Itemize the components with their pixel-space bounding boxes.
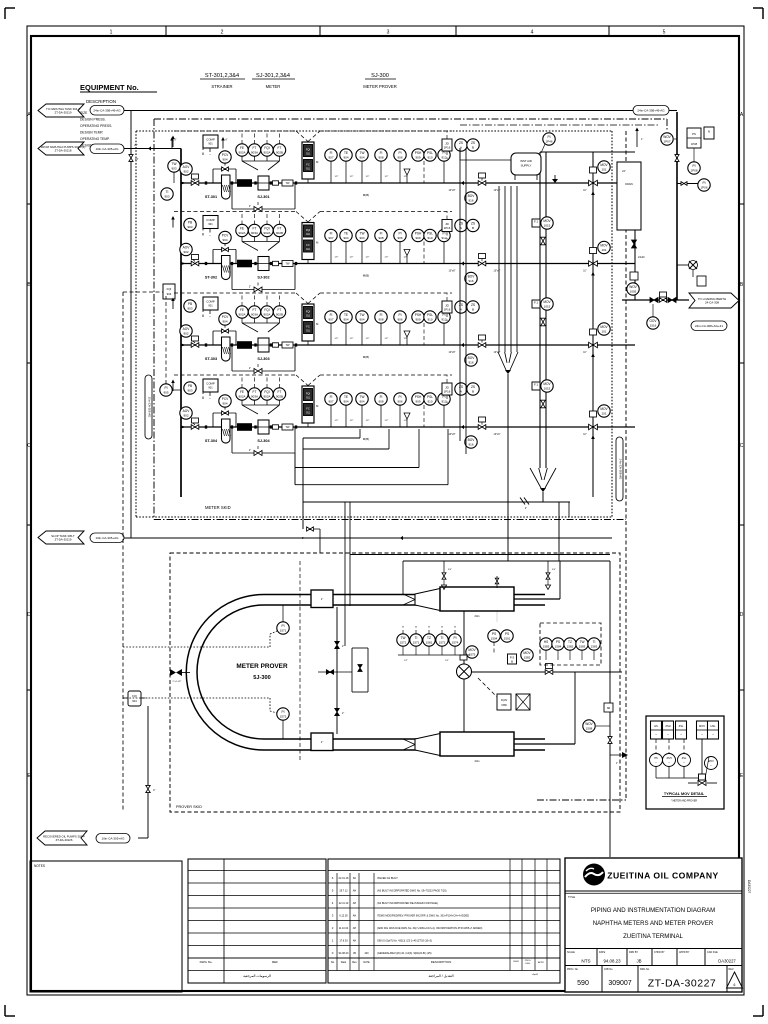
svg-text:(ADD DIG WAS DUE DWG No. 34(7+: (ADD DIG WAS DUE DWG No. 34(7+3030+CA7+4… bbox=[377, 927, 482, 930]
svg-text:AH: AH bbox=[353, 915, 357, 918]
svg-text:904: 904 bbox=[222, 238, 227, 242]
svg-text:909: 909 bbox=[415, 318, 420, 322]
svg-text:SR: SR bbox=[607, 706, 611, 710]
svg-text:904: 904 bbox=[343, 156, 348, 160]
svg-text:HS: HS bbox=[654, 757, 658, 760]
svg-text:ZUEITINA OIL COMPANY: ZUEITINA OIL COMPANY bbox=[607, 871, 719, 881]
svg-text:1572: 1572 bbox=[439, 641, 446, 645]
svg-text:FI: FI bbox=[380, 395, 383, 399]
svg-text:PI: PI bbox=[281, 710, 284, 714]
svg-text:DATE: DATE bbox=[363, 961, 370, 964]
svg-text:NOTES: NOTES bbox=[34, 864, 45, 868]
svg-text:PROJ./: PROJ./ bbox=[525, 960, 532, 962]
svg-text:F.1: F.1 bbox=[534, 383, 538, 387]
svg-text:MOV: MOV bbox=[600, 407, 608, 411]
svg-text:911: 911 bbox=[306, 397, 310, 400]
svg-text:904: 904 bbox=[343, 400, 348, 404]
svg-text:FT: FT bbox=[278, 146, 282, 150]
svg-text:ZSH: ZSH bbox=[667, 757, 672, 760]
svg-text:FT: FT bbox=[278, 308, 282, 312]
svg-text:PSH: PSH bbox=[415, 395, 422, 399]
svg-text:PCV: PCV bbox=[222, 234, 229, 238]
svg-text:PCV: PCV bbox=[222, 153, 229, 157]
svg-text:906: 906 bbox=[397, 156, 402, 160]
svg-text:902A: 902A bbox=[263, 395, 270, 399]
svg-text:907: 907 bbox=[328, 400, 333, 404]
svg-text:10''x8'': 10''x8'' bbox=[448, 270, 456, 273]
svg-text:APPD: APPD bbox=[538, 961, 544, 964]
svg-text:ZS: ZS bbox=[459, 141, 463, 145]
svg-text:B: B bbox=[472, 146, 474, 150]
svg-text:TYPICAL MOV DETAIL: TYPICAL MOV DETAIL bbox=[664, 792, 705, 796]
svg-text:10''x8'': 10''x8'' bbox=[448, 351, 456, 354]
svg-text:10''x8'': 10''x8'' bbox=[448, 189, 456, 192]
svg-text:FI: FI bbox=[380, 232, 383, 236]
svg-text:ENG.: ENG. bbox=[526, 963, 531, 965]
svg-text:AOV: AOV bbox=[183, 165, 191, 169]
svg-text:الرسومات المرجعية: الرسومات المرجعية bbox=[243, 974, 271, 978]
svg-text:902B: 902B bbox=[276, 313, 283, 317]
svg-text:906: 906 bbox=[397, 236, 402, 240]
svg-text:911: 911 bbox=[306, 233, 310, 236]
svg-text:FQI: FQI bbox=[306, 148, 311, 152]
svg-text:TE: TE bbox=[344, 395, 348, 399]
svg-text:1/2'': 1/2'' bbox=[385, 257, 389, 259]
svg-text:1/2'': 1/2'' bbox=[385, 176, 389, 178]
svg-text:WOV: WOV bbox=[663, 135, 671, 139]
svg-text:909: 909 bbox=[415, 156, 420, 160]
svg-text:DA30227: DA30227 bbox=[747, 880, 751, 894]
svg-text:PSH: PSH bbox=[415, 232, 422, 236]
svg-text:902B: 902B bbox=[276, 231, 283, 235]
svg-text:PB: PB bbox=[188, 302, 192, 306]
svg-text:PI: PI bbox=[398, 395, 401, 399]
svg-text:903: 903 bbox=[171, 167, 176, 171]
svg-text:DRG No.: DRG No. bbox=[640, 968, 650, 971]
svg-text:PIPING AND INSTRUMENTATION DIA: PIPING AND INSTRUMENTATION DIAGRAM bbox=[591, 907, 715, 914]
svg-text:10''x6'': 10''x6'' bbox=[493, 270, 501, 273]
svg-text:903A: 903A bbox=[251, 231, 258, 235]
svg-text:1/2'': 1/2'' bbox=[350, 257, 354, 259]
svg-text:24in: 24in bbox=[475, 614, 480, 618]
svg-text:1/2'': 1/2'' bbox=[335, 420, 339, 422]
svg-text:903: 903 bbox=[187, 307, 192, 311]
svg-text:D: D bbox=[27, 612, 31, 618]
svg-text:ZS: ZS bbox=[471, 141, 475, 145]
svg-text:DESIGN PRESS.: DESIGN PRESS. bbox=[80, 118, 106, 122]
svg-text:907: 907 bbox=[328, 236, 333, 240]
svg-text:309007: 309007 bbox=[608, 980, 631, 987]
svg-text:1/2'': 1/2'' bbox=[366, 257, 370, 259]
svg-text:TE: TE bbox=[344, 232, 348, 236]
svg-text:904: 904 bbox=[359, 400, 364, 404]
svg-text:904: 904 bbox=[132, 699, 137, 703]
svg-text:SJ-304: SJ-304 bbox=[257, 439, 270, 443]
svg-text:PI: PI bbox=[442, 232, 445, 236]
svg-text:ISSUED AS BUILT: ISSUED AS BUILT bbox=[377, 877, 398, 880]
svg-text:ST-303: ST-303 bbox=[205, 357, 217, 361]
svg-text:COMP: COMP bbox=[206, 218, 215, 222]
svg-text:MOV: MOV bbox=[600, 163, 608, 167]
svg-text:1P16: 1P16 bbox=[444, 307, 451, 311]
svg-text:FT: FT bbox=[253, 390, 257, 394]
svg-text:908: 908 bbox=[378, 236, 383, 240]
svg-text:JB: JB bbox=[353, 952, 356, 955]
svg-text:SC: SC bbox=[353, 877, 357, 880]
svg-text:FI: FI bbox=[330, 232, 333, 236]
svg-text:Date: Date bbox=[341, 960, 347, 964]
svg-text:904: 904 bbox=[343, 236, 348, 240]
svg-text:901: 901 bbox=[208, 304, 213, 308]
svg-text:904: 904 bbox=[359, 318, 364, 322]
svg-text:901: 901 bbox=[208, 386, 213, 390]
svg-text:1P08: 1P08 bbox=[690, 169, 697, 173]
svg-text:1P16: 1P16 bbox=[444, 389, 451, 393]
svg-text:902: 902 bbox=[183, 414, 188, 418]
svg-text:3: 3 bbox=[387, 30, 390, 36]
svg-text:DESIGN TEMP.: DESIGN TEMP. bbox=[80, 131, 103, 135]
svg-text:PSL: PSL bbox=[427, 151, 433, 155]
svg-text:904: 904 bbox=[343, 318, 348, 322]
svg-text:FE: FE bbox=[240, 146, 244, 150]
svg-text:METER: METER bbox=[266, 84, 281, 89]
svg-text:902: 902 bbox=[183, 332, 188, 336]
svg-text:B: B bbox=[511, 659, 513, 663]
svg-text:1005: 1005 bbox=[630, 290, 637, 294]
svg-text:910: 910 bbox=[427, 400, 432, 404]
svg-text:TW: TW bbox=[360, 395, 365, 399]
svg-text:ST-304: ST-304 bbox=[205, 439, 218, 443]
svg-text:1/2'': 1/2'' bbox=[350, 176, 354, 178]
svg-text:PCV: PCV bbox=[222, 397, 229, 401]
svg-text:(AS BUILT INCORPORATED DWG No.: (AS BUILT INCORPORATED DWG No. 05+70223 … bbox=[377, 890, 447, 893]
svg-text:1574: 1574 bbox=[452, 641, 459, 645]
svg-text:24in: 24in bbox=[475, 759, 480, 763]
svg-text:PSL: PSL bbox=[427, 313, 433, 317]
svg-text:1572: 1572 bbox=[280, 715, 287, 719]
svg-text:10''x6'': 10''x6'' bbox=[493, 351, 501, 354]
svg-text:906: 906 bbox=[397, 318, 402, 322]
svg-text:ZSL: ZSL bbox=[682, 757, 687, 760]
svg-text:AH: AH bbox=[353, 890, 357, 893]
svg-text:ZS: ZS bbox=[459, 385, 463, 389]
svg-text:FE: FE bbox=[240, 227, 244, 231]
svg-text:N: N bbox=[708, 130, 710, 134]
svg-text:902A: 902A bbox=[238, 151, 245, 155]
svg-text:HS: HS bbox=[544, 640, 548, 644]
svg-text:SCALE: SCALE bbox=[567, 951, 575, 954]
svg-text:TITLE: TITLE bbox=[568, 895, 575, 899]
svg-text:10''x8'': 10''x8'' bbox=[448, 433, 456, 436]
svg-text:10'': 10'' bbox=[583, 271, 587, 273]
svg-text:B: B bbox=[472, 308, 474, 312]
svg-text:902B: 902B bbox=[276, 395, 283, 399]
svg-text:B: B bbox=[472, 226, 474, 230]
svg-text:PI: PI bbox=[398, 313, 401, 317]
svg-text:911: 911 bbox=[306, 315, 310, 318]
svg-text:F.1: F.1 bbox=[534, 220, 538, 224]
svg-text:* METER AND PROVER: * METER AND PROVER bbox=[671, 800, 698, 803]
svg-text:FQI: FQI bbox=[264, 146, 269, 150]
svg-text:908: 908 bbox=[378, 156, 383, 160]
svg-text:FQI: FQI bbox=[306, 228, 311, 232]
svg-text:FQI: FQI bbox=[132, 694, 137, 698]
svg-text:912: 912 bbox=[441, 400, 446, 404]
svg-text:1580: 1580 bbox=[501, 704, 507, 707]
svg-text:BOV: BOV bbox=[468, 194, 476, 198]
svg-text:TW: TW bbox=[285, 425, 290, 429]
svg-text:FE: FE bbox=[240, 390, 244, 394]
svg-text:SJ-301,2,3&4: SJ-301,2,3&4 bbox=[256, 73, 290, 79]
svg-text:FI: FI bbox=[330, 313, 333, 317]
svg-text:10'': 10'' bbox=[583, 434, 587, 436]
svg-text:TW: TW bbox=[285, 181, 290, 185]
svg-text:PI: PI bbox=[398, 232, 401, 236]
svg-text:4: 4 bbox=[531, 30, 534, 36]
svg-text:FI: FI bbox=[330, 395, 333, 399]
svg-text:904: 904 bbox=[222, 158, 227, 162]
svg-text:APPD BY: APPD BY bbox=[679, 951, 690, 954]
svg-text:JOB No.: JOB No. bbox=[604, 968, 613, 971]
svg-text:INST AIR: INST AIR bbox=[520, 159, 532, 163]
svg-text:WOV: WOV bbox=[708, 760, 714, 763]
svg-text:PI: PI bbox=[692, 164, 695, 168]
svg-text:24-CA-308: 24-CA-308 bbox=[705, 301, 719, 305]
svg-text:TW: TW bbox=[360, 313, 365, 317]
svg-text:GOV: GOV bbox=[649, 319, 657, 323]
svg-text:1504: 1504 bbox=[491, 637, 498, 641]
svg-text:BOV: BOV bbox=[468, 275, 476, 279]
svg-text:1/2'': 1/2'' bbox=[385, 338, 389, 340]
svg-text:916: 916 bbox=[468, 443, 473, 447]
svg-text:903: 903 bbox=[187, 225, 192, 229]
svg-text:FQI: FQI bbox=[264, 227, 269, 231]
svg-text:911: 911 bbox=[306, 248, 310, 251]
svg-text:904: 904 bbox=[222, 320, 227, 324]
svg-text:CAD FILE: CAD FILE bbox=[707, 951, 718, 954]
svg-text:DA30227: DA30227 bbox=[718, 959, 736, 964]
svg-text:ZT-DA-30218: ZT-DA-30218 bbox=[55, 148, 72, 152]
svg-text:ST-302: ST-302 bbox=[205, 276, 217, 280]
svg-text:1/2'': 1/2'' bbox=[445, 660, 449, 662]
svg-text:FI: FI bbox=[380, 313, 383, 317]
svg-text:AH: AH bbox=[353, 940, 357, 943]
svg-text:DATE: DATE bbox=[599, 951, 606, 954]
svg-text:M(B): M(B) bbox=[363, 355, 370, 359]
svg-text:SJ-302: SJ-302 bbox=[257, 276, 269, 280]
svg-text:907: 907 bbox=[328, 318, 333, 322]
svg-text:1P06: 1P06 bbox=[700, 186, 707, 190]
svg-text:912: 912 bbox=[441, 156, 446, 160]
svg-text:1/2'': 1/2'' bbox=[366, 420, 370, 422]
svg-text:901: 901 bbox=[208, 142, 213, 146]
svg-text:*: * bbox=[711, 765, 712, 768]
svg-text:1/2'': 1/2'' bbox=[335, 257, 339, 259]
svg-text:*: * bbox=[656, 762, 657, 765]
svg-text:TI: TI bbox=[415, 636, 418, 640]
svg-text:1508: 1508 bbox=[586, 727, 593, 731]
svg-text:REF: REF bbox=[272, 960, 278, 964]
svg-text:906: 906 bbox=[397, 400, 402, 404]
svg-text:2: 2 bbox=[221, 30, 224, 36]
svg-text:FQI: FQI bbox=[264, 308, 269, 312]
svg-text:ZS: ZS bbox=[471, 303, 475, 307]
svg-text:PS: PS bbox=[505, 632, 509, 636]
svg-text:FT: FT bbox=[253, 308, 257, 312]
svg-text:PI: PI bbox=[164, 386, 167, 390]
svg-text:TZ: TZ bbox=[568, 640, 572, 644]
svg-text:904: 904 bbox=[167, 292, 172, 296]
svg-text:TW: TW bbox=[401, 636, 406, 640]
svg-text:(GENERAL/REV.(p5) 42. (14(3).: (GENERAL/REV.(p5) 42. (14(3). 9(04(22.81… bbox=[377, 952, 432, 955]
svg-text:TW: TW bbox=[580, 640, 585, 644]
svg-text:904: 904 bbox=[222, 402, 227, 406]
svg-text:1583: 1583 bbox=[543, 645, 550, 649]
svg-text:MOV: MOV bbox=[543, 300, 551, 304]
svg-text:FI: FI bbox=[380, 151, 383, 155]
svg-text:BOV: BOV bbox=[468, 438, 476, 442]
svg-text:ZT-DA-30219: ZT-DA-30219 bbox=[55, 537, 72, 541]
svg-text:COMP: COMP bbox=[206, 382, 215, 386]
svg-text:PI: PI bbox=[281, 624, 284, 628]
svg-text:ZT-DA-30227: ZT-DA-30227 bbox=[648, 978, 717, 990]
svg-text:OPERATING TEMP.: OPERATING TEMP. bbox=[80, 137, 110, 141]
svg-text:1571: 1571 bbox=[413, 641, 420, 645]
svg-text:10'': 10'' bbox=[583, 352, 587, 354]
svg-text:REV.: REV. bbox=[729, 968, 735, 971]
svg-text:1/2'': 1/2'' bbox=[385, 420, 389, 422]
svg-text:ZS: ZS bbox=[459, 222, 463, 226]
svg-text:FC: FC bbox=[306, 163, 310, 167]
svg-text:TW: TW bbox=[285, 262, 290, 266]
svg-text:PROVER SKID: PROVER SKID bbox=[176, 805, 202, 809]
svg-text:1P07: 1P07 bbox=[663, 140, 670, 144]
svg-text:C: C bbox=[27, 443, 31, 449]
svg-text:HSL: HSL bbox=[710, 724, 716, 728]
svg-text:590: 590 bbox=[577, 980, 589, 987]
svg-text:909: 909 bbox=[415, 236, 420, 240]
svg-text:PB: PB bbox=[188, 221, 192, 225]
svg-text:WOV: WOV bbox=[629, 285, 637, 289]
svg-text:FC: FC bbox=[306, 243, 310, 247]
svg-text:MOV: MOV bbox=[600, 325, 608, 329]
svg-text:901: 901 bbox=[208, 222, 213, 226]
svg-text:ST-301: ST-301 bbox=[205, 195, 217, 199]
svg-text:1/2'': 1/2'' bbox=[335, 176, 339, 178]
svg-text:MOV: MOV bbox=[543, 219, 551, 223]
svg-text:FT: FT bbox=[278, 227, 282, 231]
svg-text:101: 101 bbox=[601, 330, 606, 334]
svg-text:DWG No.: DWG No. bbox=[200, 960, 213, 964]
svg-text:902A: 902A bbox=[263, 151, 270, 155]
svg-text:902: 902 bbox=[183, 170, 188, 174]
svg-text:910: 910 bbox=[427, 318, 432, 322]
svg-text:AH: AH bbox=[353, 902, 357, 905]
svg-text:10in-CA-305+AG: 10in-CA-305+AG bbox=[96, 147, 120, 151]
svg-text:1/2'': 1/2'' bbox=[366, 338, 370, 340]
svg-text:SUPPLY: SUPPLY bbox=[521, 164, 532, 168]
svg-text:C: C bbox=[740, 443, 744, 449]
svg-text:TE: TE bbox=[344, 151, 348, 155]
svg-text:SJ-301: SJ-301 bbox=[257, 195, 269, 199]
svg-text:ZT-DA-30219: ZT-DA-30219 bbox=[55, 110, 72, 114]
svg-text:24'': 24'' bbox=[622, 170, 626, 173]
svg-text:OPERATING PRESS.: OPERATING PRESS. bbox=[80, 124, 112, 128]
svg-text:FT: FT bbox=[253, 146, 257, 150]
svg-text:TI: TI bbox=[593, 640, 596, 644]
svg-text:AH: AH bbox=[353, 927, 357, 930]
svg-text:COMP: COMP bbox=[206, 300, 215, 304]
svg-text:D: D bbox=[740, 612, 744, 618]
svg-text:PI: PI bbox=[547, 135, 550, 139]
svg-text:6: 6 bbox=[734, 983, 736, 987]
svg-text:MOV: MOV bbox=[468, 648, 476, 652]
svg-text:911: 911 bbox=[306, 153, 310, 156]
svg-text:MOV: MOV bbox=[523, 651, 531, 655]
svg-text:903A: 903A bbox=[251, 151, 258, 155]
svg-text:905: 905 bbox=[163, 391, 168, 395]
svg-text:التعديل / المراجعة: التعديل / المراجعة bbox=[428, 974, 453, 978]
svg-text:PI: PI bbox=[453, 636, 456, 640]
svg-text:SJ-303: SJ-303 bbox=[257, 357, 269, 361]
svg-text:909: 909 bbox=[415, 400, 420, 404]
svg-text:1015: 1015 bbox=[544, 305, 551, 309]
svg-text:902B: 902B bbox=[276, 151, 283, 155]
svg-text:SJ-300: SJ-300 bbox=[371, 73, 389, 79]
svg-text:EQUIPMENT No.: EQUIPMENT No. bbox=[80, 83, 139, 92]
svg-text:PI: PI bbox=[398, 151, 401, 155]
svg-text:1583: 1583 bbox=[591, 645, 598, 649]
svg-text:910: 910 bbox=[427, 156, 432, 160]
svg-text:FC: FC bbox=[306, 325, 310, 329]
svg-text:1581: 1581 bbox=[426, 641, 433, 645]
svg-text:902: 902 bbox=[183, 250, 188, 254]
svg-text:1/2'': 1/2'' bbox=[335, 338, 339, 340]
svg-text:CHKD: CHKD bbox=[513, 961, 520, 963]
svg-text:902A: 902A bbox=[263, 313, 270, 317]
svg-text:02.01.18: 02.01.18 bbox=[339, 877, 349, 880]
svg-text:MOV: MOV bbox=[543, 382, 551, 386]
svg-text:3/4'': 3/4'' bbox=[448, 569, 452, 571]
svg-text:94.08.23: 94.08.23 bbox=[339, 952, 349, 955]
svg-text:1571: 1571 bbox=[280, 629, 287, 633]
svg-text:PROJ. No.: PROJ. No. bbox=[567, 968, 579, 971]
svg-text:1501: 1501 bbox=[504, 637, 511, 641]
svg-text:NTS: NTS bbox=[581, 959, 590, 964]
svg-text:902A: 902A bbox=[238, 231, 245, 235]
svg-text:10'': 10'' bbox=[583, 190, 587, 192]
svg-text:ZSL: ZSL bbox=[679, 724, 684, 728]
svg-text:TW: TW bbox=[360, 151, 365, 155]
svg-text:1582: 1582 bbox=[567, 645, 574, 649]
svg-text:10''x6'': 10''x6'' bbox=[493, 433, 501, 436]
svg-text:DRAIN: DRAIN bbox=[625, 183, 633, 186]
svg-text:PI: PI bbox=[442, 151, 445, 155]
svg-text:903: 903 bbox=[187, 389, 192, 393]
svg-text:1/2'': 1/2'' bbox=[404, 660, 408, 662]
svg-text:903A: 903A bbox=[251, 313, 258, 317]
svg-text:24'': 24'' bbox=[135, 158, 139, 161]
svg-text:1P16: 1P16 bbox=[444, 145, 451, 149]
svg-text:10in-CA-305+AG: 10in-CA-305+AG bbox=[102, 836, 126, 840]
svg-text:10in-CA-305+AG: 10in-CA-305+AG bbox=[96, 536, 120, 540]
svg-text:101: 101 bbox=[601, 412, 606, 416]
svg-text:PSL: PSL bbox=[427, 232, 433, 236]
svg-text:PS: PS bbox=[692, 132, 696, 136]
svg-text:907: 907 bbox=[328, 156, 333, 160]
svg-text:ZS: ZS bbox=[459, 303, 463, 307]
svg-text:10''x6'': 10''x6'' bbox=[493, 189, 501, 192]
